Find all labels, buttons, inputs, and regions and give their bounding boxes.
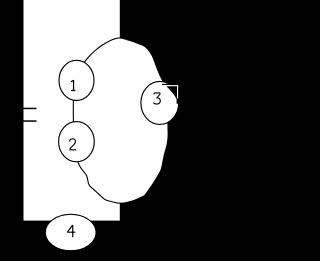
- canvas window (white rectangle): [24, 0, 120, 221]
- digit 1 (label of node 1): [71, 80, 75, 90]
- digit 2 (label of node 2): [69, 139, 76, 150]
- node circle 4: [45, 214, 96, 250]
- digit 3 (label of node 3): [153, 93, 160, 104]
- tick mark upper (left edge): [24, 108, 37, 110]
- small window over node 3: black lower-right patch: [177, 98, 180, 103]
- blob (big closed spline through nodes 1,2,3): [73, 38, 168, 203]
- tick mark lower (left edge): [24, 120, 37, 122]
- small window over node 3: black core region: [166, 86, 177, 100]
- digit 4 (label of node 4): [67, 225, 75, 237]
- node circle 1: [59, 60, 94, 100]
- node circle 3: [141, 81, 179, 124]
- small window over node 3: black outer frame (top+right): [162, 84, 179, 109]
- small window over node 3: white inner border strip: [162, 86, 178, 99]
- node circle 2: [59, 122, 95, 162]
